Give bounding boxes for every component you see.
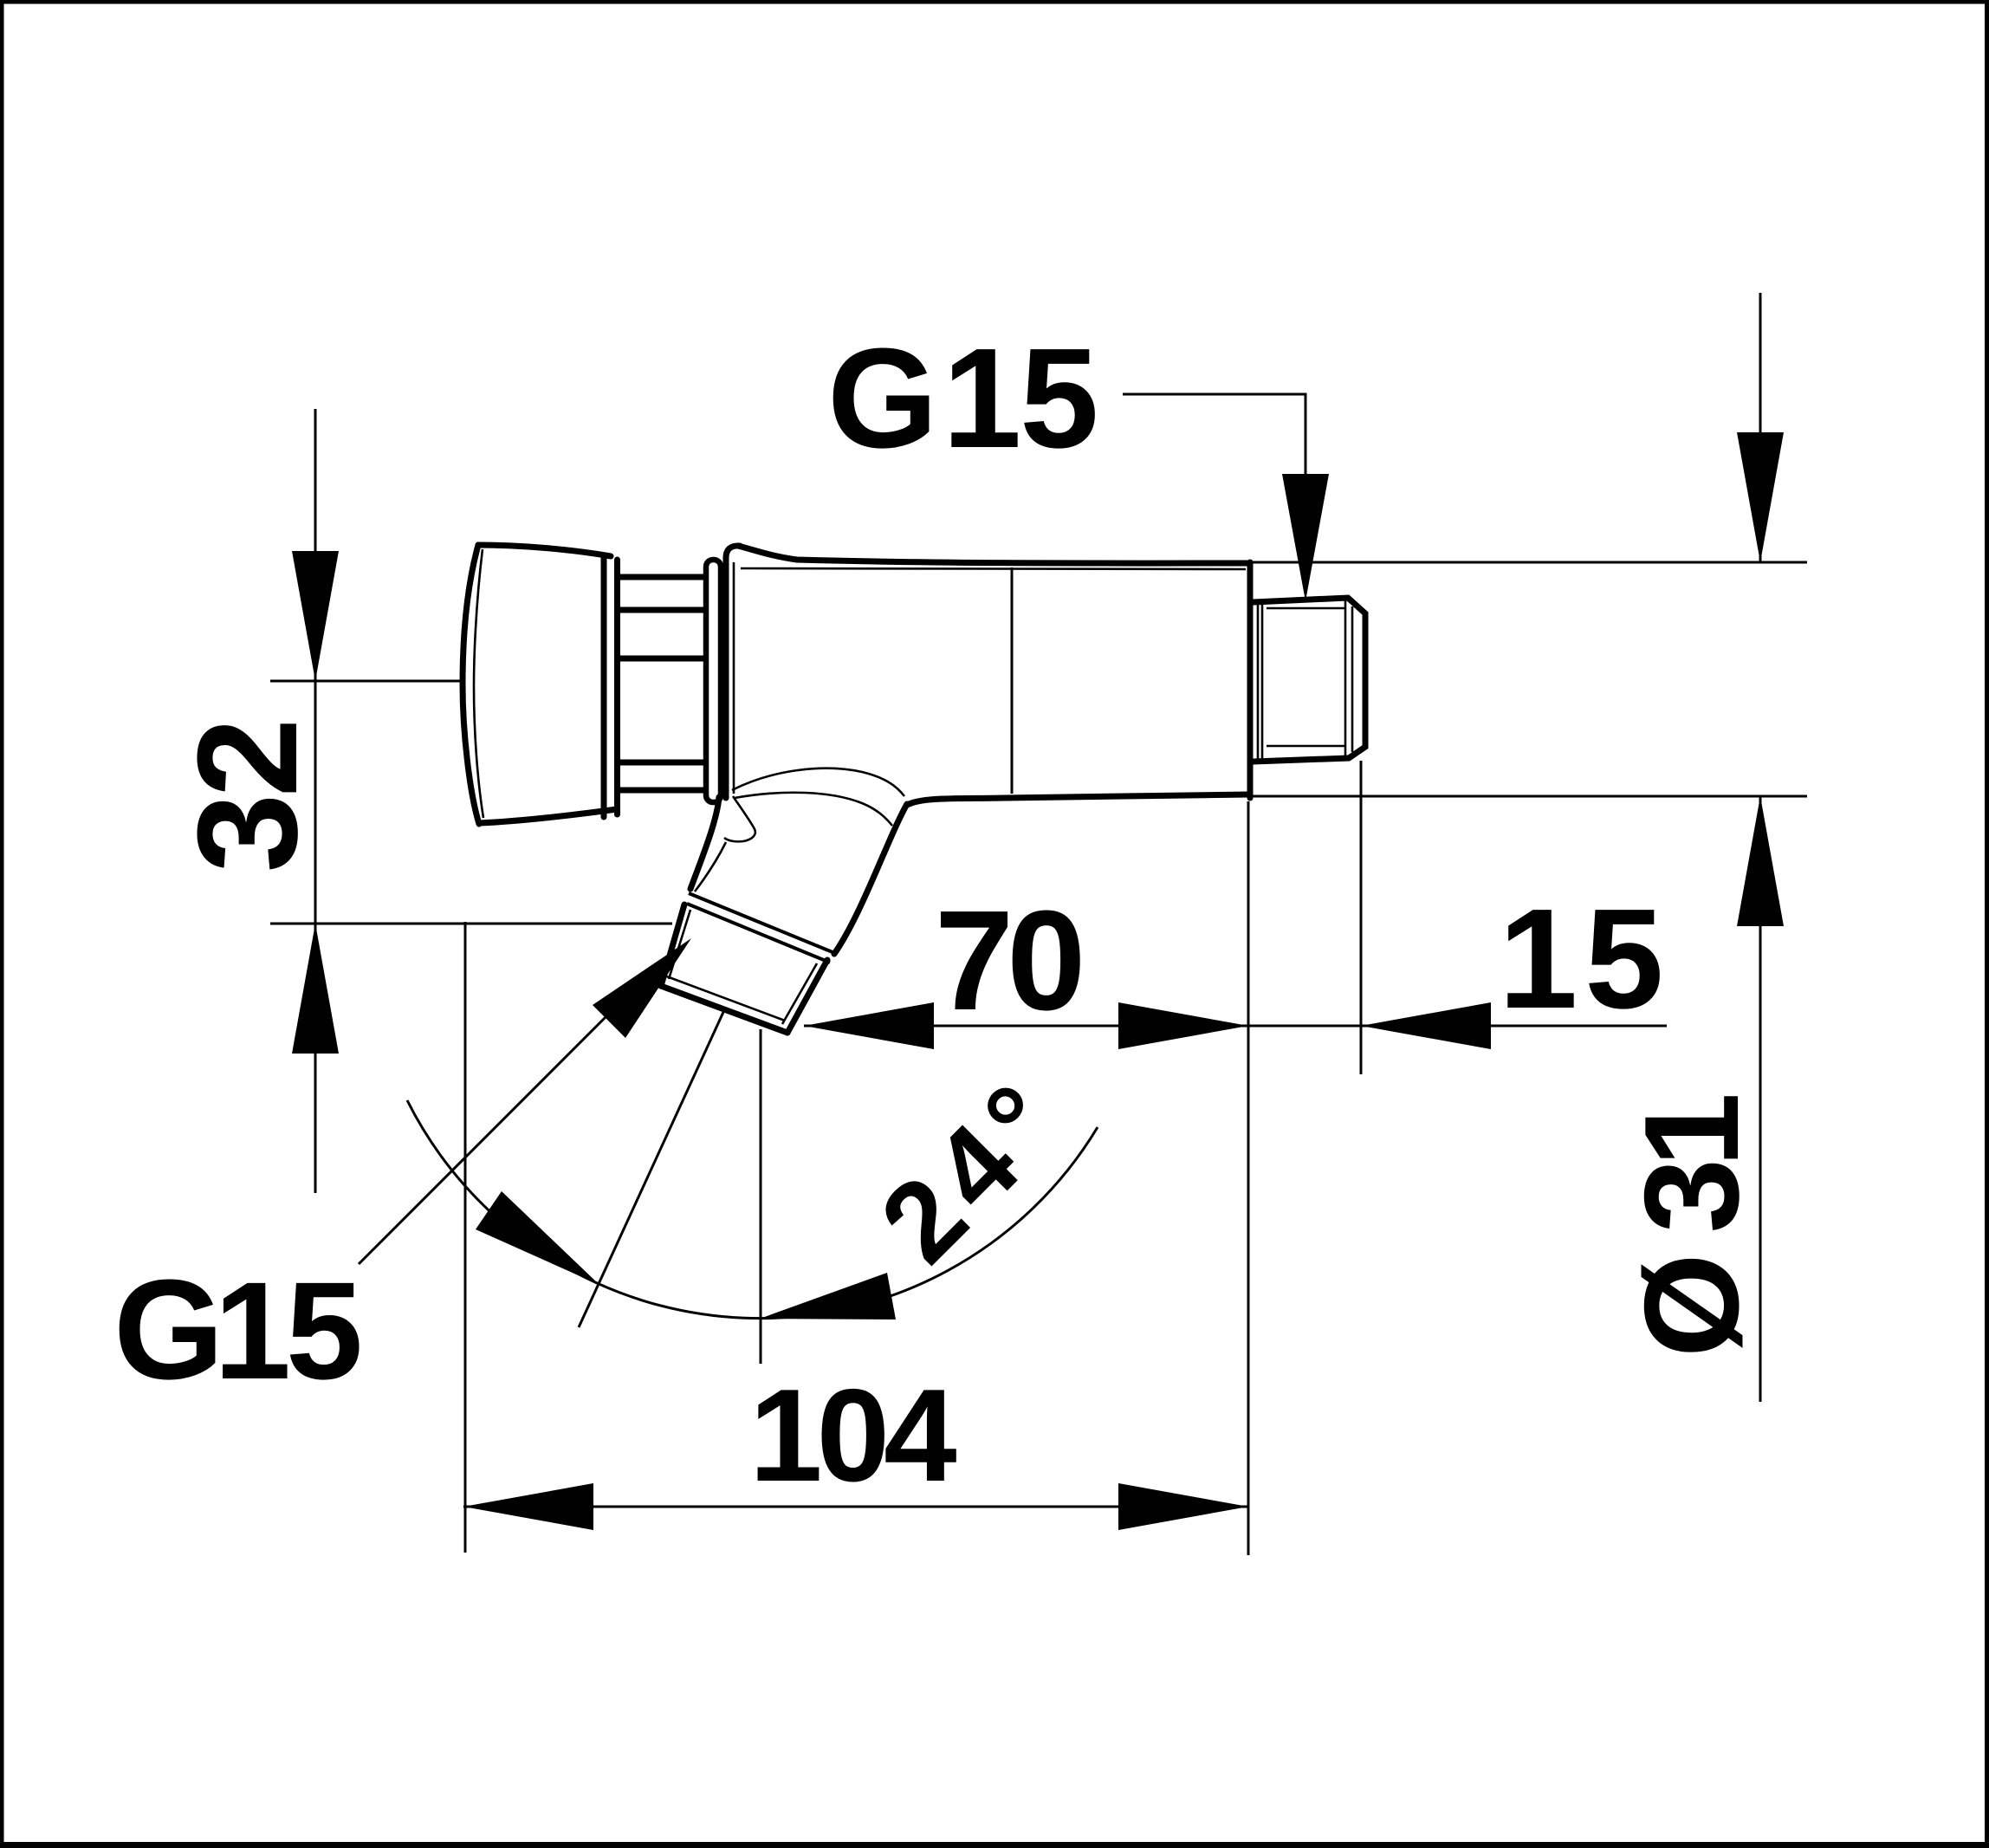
spout axis line: [579, 1010, 724, 1327]
vertical reference line: [760, 1029, 762, 1364]
stem bottom line: [619, 788, 703, 794]
push button flange bar: [614, 560, 620, 814]
border frame left: [0, 0, 4, 1848]
body left inner thin line: [733, 562, 735, 794]
svg-text:Ø 31: Ø 31: [1616, 1096, 1766, 1358]
aerator left inner thin line: [669, 910, 690, 979]
spout left edge: [690, 797, 719, 889]
G15 leader line: [359, 1010, 612, 1264]
dim 104 arrow left: [463, 1483, 593, 1530]
aerator joint band lower line: [687, 904, 830, 963]
body left edge: [726, 546, 740, 798]
svg-text:15: 15: [214, 1253, 360, 1408]
shoulder pocket curve: [724, 796, 755, 841]
dim 32 arrow down: [292, 551, 339, 681]
dim O31 extension line bottom: [1251, 795, 1807, 798]
G 15 leader arrow: [1282, 474, 1329, 601]
svg-text:15: 15: [1499, 879, 1670, 1038]
dim 32 extension line lower (outlet centerline): [270, 923, 672, 925]
svg-text:104: 104: [749, 1362, 956, 1509]
shoulder lower fillet curve: [735, 793, 892, 826]
dim O31 dimension line lower: [1759, 796, 1762, 1402]
thread stub outline: [1254, 598, 1365, 762]
svg-text:15: 15: [943, 319, 1097, 477]
aerator right edge: [787, 960, 827, 1033]
collar ring: [706, 560, 721, 802]
dim 70/104 right extension line: [1247, 801, 1250, 1555]
thread stub chamfer line: [1351, 606, 1354, 752]
G 15 leader line: [1123, 394, 1305, 485]
thread stub root line b: [1261, 603, 1264, 760]
stem thread line 1: [619, 574, 703, 580]
thread stub end line: [1344, 599, 1347, 759]
body top edge: [738, 546, 1248, 563]
shoulder upper fillet curve: [732, 768, 904, 796]
stem thread line 3: [619, 656, 703, 662]
svg-text:70: 70: [935, 881, 1080, 1040]
dim 24deg arc arrow right: [760, 1273, 896, 1320]
push button cap left face: [463, 545, 479, 824]
dim 32 arrow up: [292, 924, 339, 1054]
dim O31 arrow up: [1737, 796, 1784, 926]
body bottom edge: [907, 794, 1248, 805]
dim 24deg arc: [407, 1100, 1098, 1319]
aerator left edge: [661, 905, 684, 986]
aerator joint band upper line: [689, 893, 833, 952]
dim 104 arrow right: [1118, 1483, 1248, 1530]
push button rim bar: [601, 558, 607, 817]
push button top edge: [478, 545, 611, 556]
dim O31 dimension line upper: [1759, 293, 1762, 562]
stem thread line 4: [619, 760, 703, 766]
dim O31 extension line top: [1251, 561, 1807, 564]
push button inner highlight curve: [474, 549, 483, 818]
aerator outlet face: [661, 986, 787, 1033]
svg-text:32: 32: [168, 722, 327, 872]
body top inner thin line: [741, 568, 1246, 569]
border frame bottom: [0, 1842, 1989, 1848]
dim 15 extension line: [1360, 761, 1363, 1074]
svg-text:G: G: [827, 319, 938, 477]
stem thread line 2: [619, 607, 703, 613]
dim 70/15 dimension line: [804, 1025, 1667, 1028]
G15 leader arrow: [593, 938, 691, 1038]
thread stub crest bottom line: [1267, 745, 1344, 748]
border frame top: [0, 0, 1989, 4]
dim 32 extension line upper (body centerline): [270, 680, 463, 683]
body section line: [1011, 567, 1014, 794]
dim 104 left extension line: [464, 922, 467, 1553]
dim 70 arrow right: [1118, 1002, 1248, 1049]
push button bottom edge: [479, 809, 617, 823]
dim 24deg arc arrow left: [476, 1191, 599, 1285]
aerator right inner thin line: [782, 963, 817, 1024]
dim 70 arrow left: [804, 1002, 934, 1049]
aerator face inner thin line: [664, 976, 785, 1021]
svg-text:G: G: [113, 1250, 224, 1409]
spout left inner thin line: [695, 842, 726, 892]
dim 15 arrow: [1361, 1002, 1491, 1049]
border frame right: [1985, 0, 1989, 1848]
dim 104 dimension line: [463, 1506, 1248, 1508]
dim O31 arrow down: [1737, 432, 1784, 562]
thread stub crest top line: [1267, 607, 1344, 610]
thread stub root line a: [1257, 603, 1260, 760]
dim 32 dimension line: [314, 409, 317, 1193]
body right face edge: [1247, 562, 1254, 798]
spout right edge: [834, 804, 907, 954]
